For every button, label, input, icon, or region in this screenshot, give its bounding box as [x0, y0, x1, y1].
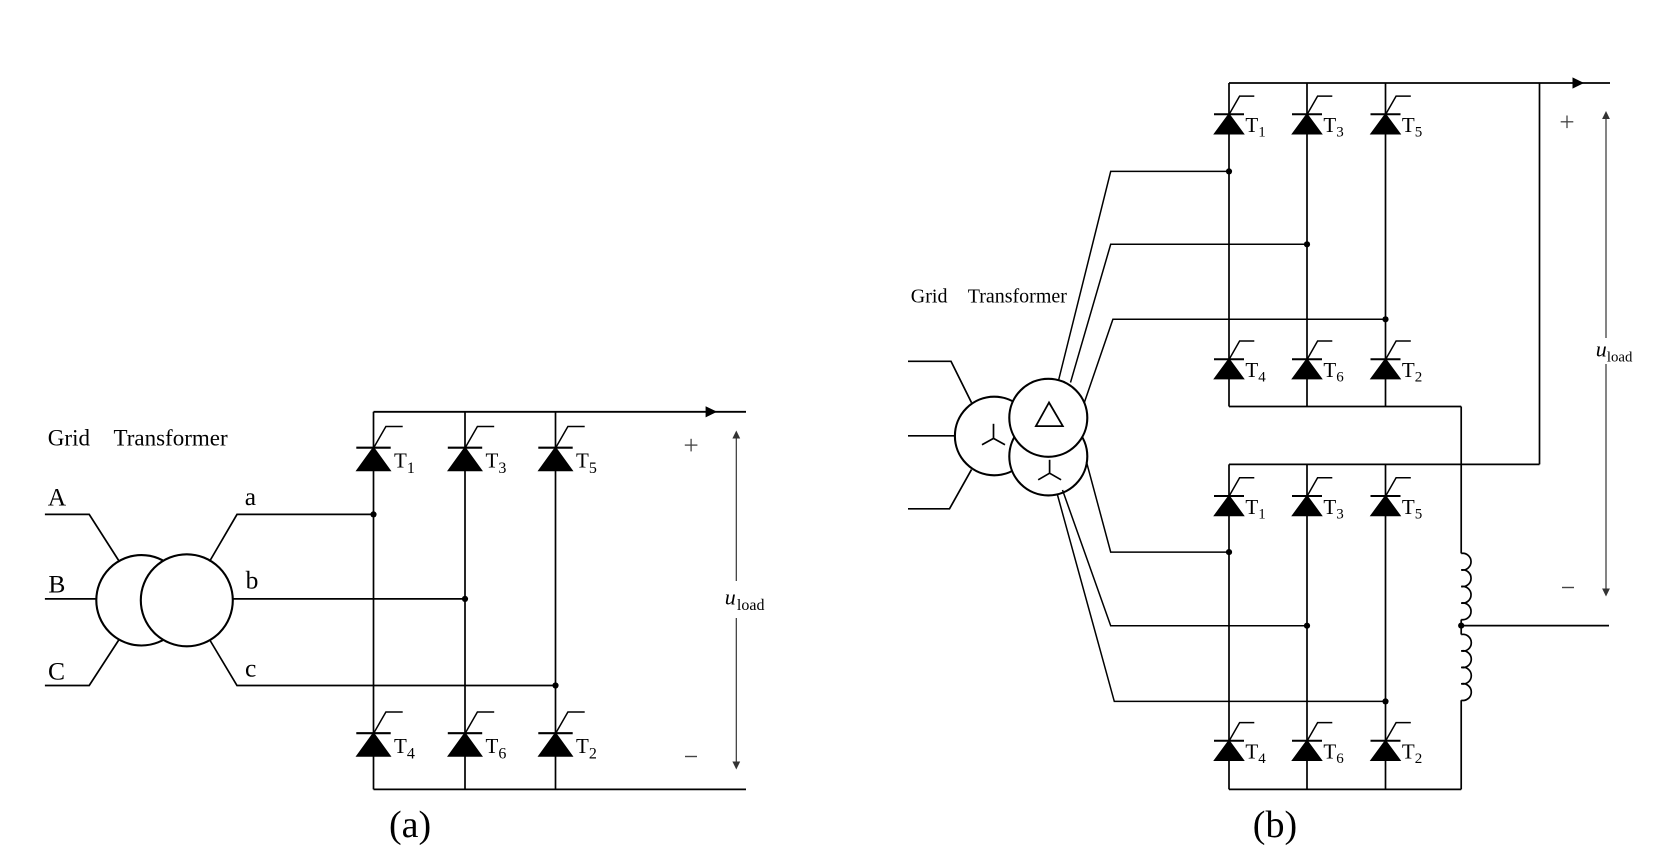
wire delta phase 2 to top bridge	[1071, 244, 1308, 382]
current arrow on dc plus bus (a)	[706, 406, 718, 417]
transformer wye secondary winding circle (b)	[1009, 417, 1087, 495]
wire phase b	[233, 598, 465, 600]
node top bridge phase 1	[1226, 168, 1232, 174]
svg-text:T3: T3	[486, 449, 507, 478]
plus sign (a)	[685, 439, 698, 452]
svg-text:T4: T4	[394, 734, 415, 763]
thyristor T6 (a)	[448, 712, 494, 756]
interphase reactor upper coil	[1461, 553, 1471, 619]
thyristor T6 (b bottom)	[1292, 723, 1332, 761]
dc minus output wire (b)	[1461, 625, 1609, 627]
svg-text:(a): (a)	[389, 804, 431, 846]
wye symbol secondary	[1038, 460, 1061, 480]
thyristor T3 (a)	[448, 427, 494, 471]
top bridge minus bus	[1229, 406, 1461, 408]
top bridge column 3 wire	[1385, 83, 1387, 407]
node bottom bridge phase 1	[1226, 549, 1232, 555]
svg-text:C: C	[48, 657, 65, 686]
wire phase B input (b)	[908, 435, 955, 437]
svg-text:T5: T5	[1402, 113, 1422, 141]
bridge column 3 wire (a)	[555, 412, 557, 790]
svg-text:T4: T4	[1245, 358, 1266, 386]
node c junction	[552, 682, 558, 688]
svg-text:T3: T3	[1323, 495, 1343, 523]
node reactor center tap	[1458, 623, 1464, 629]
node bottom bridge phase 3	[1382, 698, 1388, 704]
thyristor T4 (b bottom)	[1214, 723, 1254, 761]
node top bridge phase 3	[1382, 316, 1388, 322]
svg-text:T2: T2	[1402, 358, 1422, 386]
node a junction	[370, 511, 376, 517]
wire delta phase 3 to top bridge	[1084, 319, 1386, 403]
svg-text:T6: T6	[1323, 358, 1344, 386]
svg-text:T1: T1	[394, 449, 415, 478]
svg-text:A: A	[48, 482, 67, 511]
wire coil to tap	[1460, 620, 1462, 635]
svg-text:Transformer: Transformer	[114, 425, 228, 450]
wire delta phase 1 to top bridge	[1059, 171, 1230, 380]
wye symbol primary	[982, 424, 1005, 445]
svg-text:a: a	[245, 482, 256, 511]
thyristor T2 (a)	[538, 712, 584, 756]
wire phase B input	[45, 598, 97, 600]
svg-text:T6: T6	[1323, 740, 1344, 768]
svg-text:B: B	[48, 569, 65, 598]
delta symbol	[1036, 403, 1063, 427]
minus sign (b)	[1562, 587, 1574, 589]
node b junction	[462, 596, 468, 602]
wire top bridge minus to reactor top	[1460, 407, 1462, 554]
current arrow on dc plus bus (b)	[1573, 77, 1585, 88]
wire phase C input	[45, 640, 119, 686]
wire bottom bridge minus to reactor bottom	[1460, 700, 1462, 789]
thyristor T2 (b top)	[1371, 341, 1411, 379]
thyristor T1 (b top)	[1214, 96, 1254, 134]
node top bridge phase 2	[1304, 241, 1310, 247]
dc plus bus (b)	[1229, 82, 1610, 84]
svg-text:T5: T5	[576, 449, 597, 478]
thyristor T4 (a)	[356, 712, 402, 756]
thyristor T5 (b top)	[1371, 96, 1411, 134]
svg-text:b: b	[246, 565, 259, 594]
svg-text:(b): (b)	[1253, 804, 1297, 846]
node bottom bridge phase 2	[1304, 623, 1310, 629]
thyristor T3 (b bottom)	[1292, 478, 1332, 516]
u_load measurement arrow (b)	[1602, 111, 1610, 597]
transformer secondary winding circle (a)	[141, 554, 233, 646]
bottom bridge column 3 wire	[1385, 464, 1387, 789]
wire phase A input	[45, 514, 119, 561]
svg-text:T3: T3	[1323, 113, 1343, 141]
svg-text:uload: uload	[725, 585, 765, 615]
wire phase C input (b)	[908, 470, 972, 509]
thyristor T5 (a)	[538, 427, 584, 471]
dc minus bus (a)	[374, 788, 747, 790]
svg-text:Grid: Grid	[48, 425, 91, 450]
transformer primary wye winding circle (b)	[955, 397, 1034, 476]
svg-text:T6: T6	[486, 734, 507, 763]
wire wye phase 2 to bottom bridge	[1063, 490, 1308, 626]
wire phase A input (b)	[908, 361, 972, 402]
thyristor T1 (b bottom)	[1214, 478, 1254, 516]
thyristor T1 (a)	[356, 427, 402, 471]
thyristor T2 (b bottom)	[1371, 723, 1411, 761]
bridge column 1 wire (a)	[373, 412, 375, 790]
wire phase c	[210, 640, 556, 686]
svg-text:uload: uload	[1596, 337, 1633, 366]
wire wye phase 1 to bottom bridge	[1087, 462, 1230, 552]
transformer delta secondary winding circle (b)	[1009, 379, 1087, 457]
plus sign (b)	[1561, 116, 1574, 129]
svg-text:T1: T1	[1245, 495, 1265, 523]
svg-text:Transformer: Transformer	[968, 285, 1068, 307]
plus rail from top bus to lower bridge	[1539, 83, 1541, 464]
top bridge column 1 wire	[1228, 83, 1230, 407]
bottom bridge column 1 wire	[1228, 464, 1230, 789]
svg-text:Grid: Grid	[911, 285, 948, 307]
transformer primary winding circle (a)	[96, 555, 186, 645]
thyristor T3 (b top)	[1292, 96, 1332, 134]
minus sign (a)	[685, 756, 697, 758]
svg-text:T4: T4	[1245, 740, 1266, 768]
thyristor T5 (b bottom)	[1371, 478, 1411, 516]
bottom bridge plus bus	[1229, 463, 1540, 465]
thyristor T4 (b top)	[1214, 341, 1254, 379]
svg-text:T2: T2	[1402, 740, 1422, 768]
wire wye phase 3 to bottom bridge	[1058, 495, 1386, 701]
svg-text:c: c	[245, 654, 256, 683]
interphase reactor lower coil	[1461, 634, 1471, 700]
bottom bridge column 2 wire	[1306, 464, 1308, 789]
u_load measurement arrow (a)	[732, 431, 740, 770]
svg-text:T1: T1	[1245, 113, 1265, 141]
top bridge column 2 wire	[1306, 83, 1308, 407]
wire phase a	[210, 514, 374, 561]
dc plus bus (a)	[374, 411, 747, 413]
bridge column 2 wire (a)	[464, 412, 466, 790]
svg-text:T5: T5	[1402, 495, 1422, 523]
bottom bridge minus bus	[1229, 788, 1461, 790]
svg-text:T2: T2	[576, 734, 597, 763]
thyristor T6 (b top)	[1292, 341, 1332, 379]
